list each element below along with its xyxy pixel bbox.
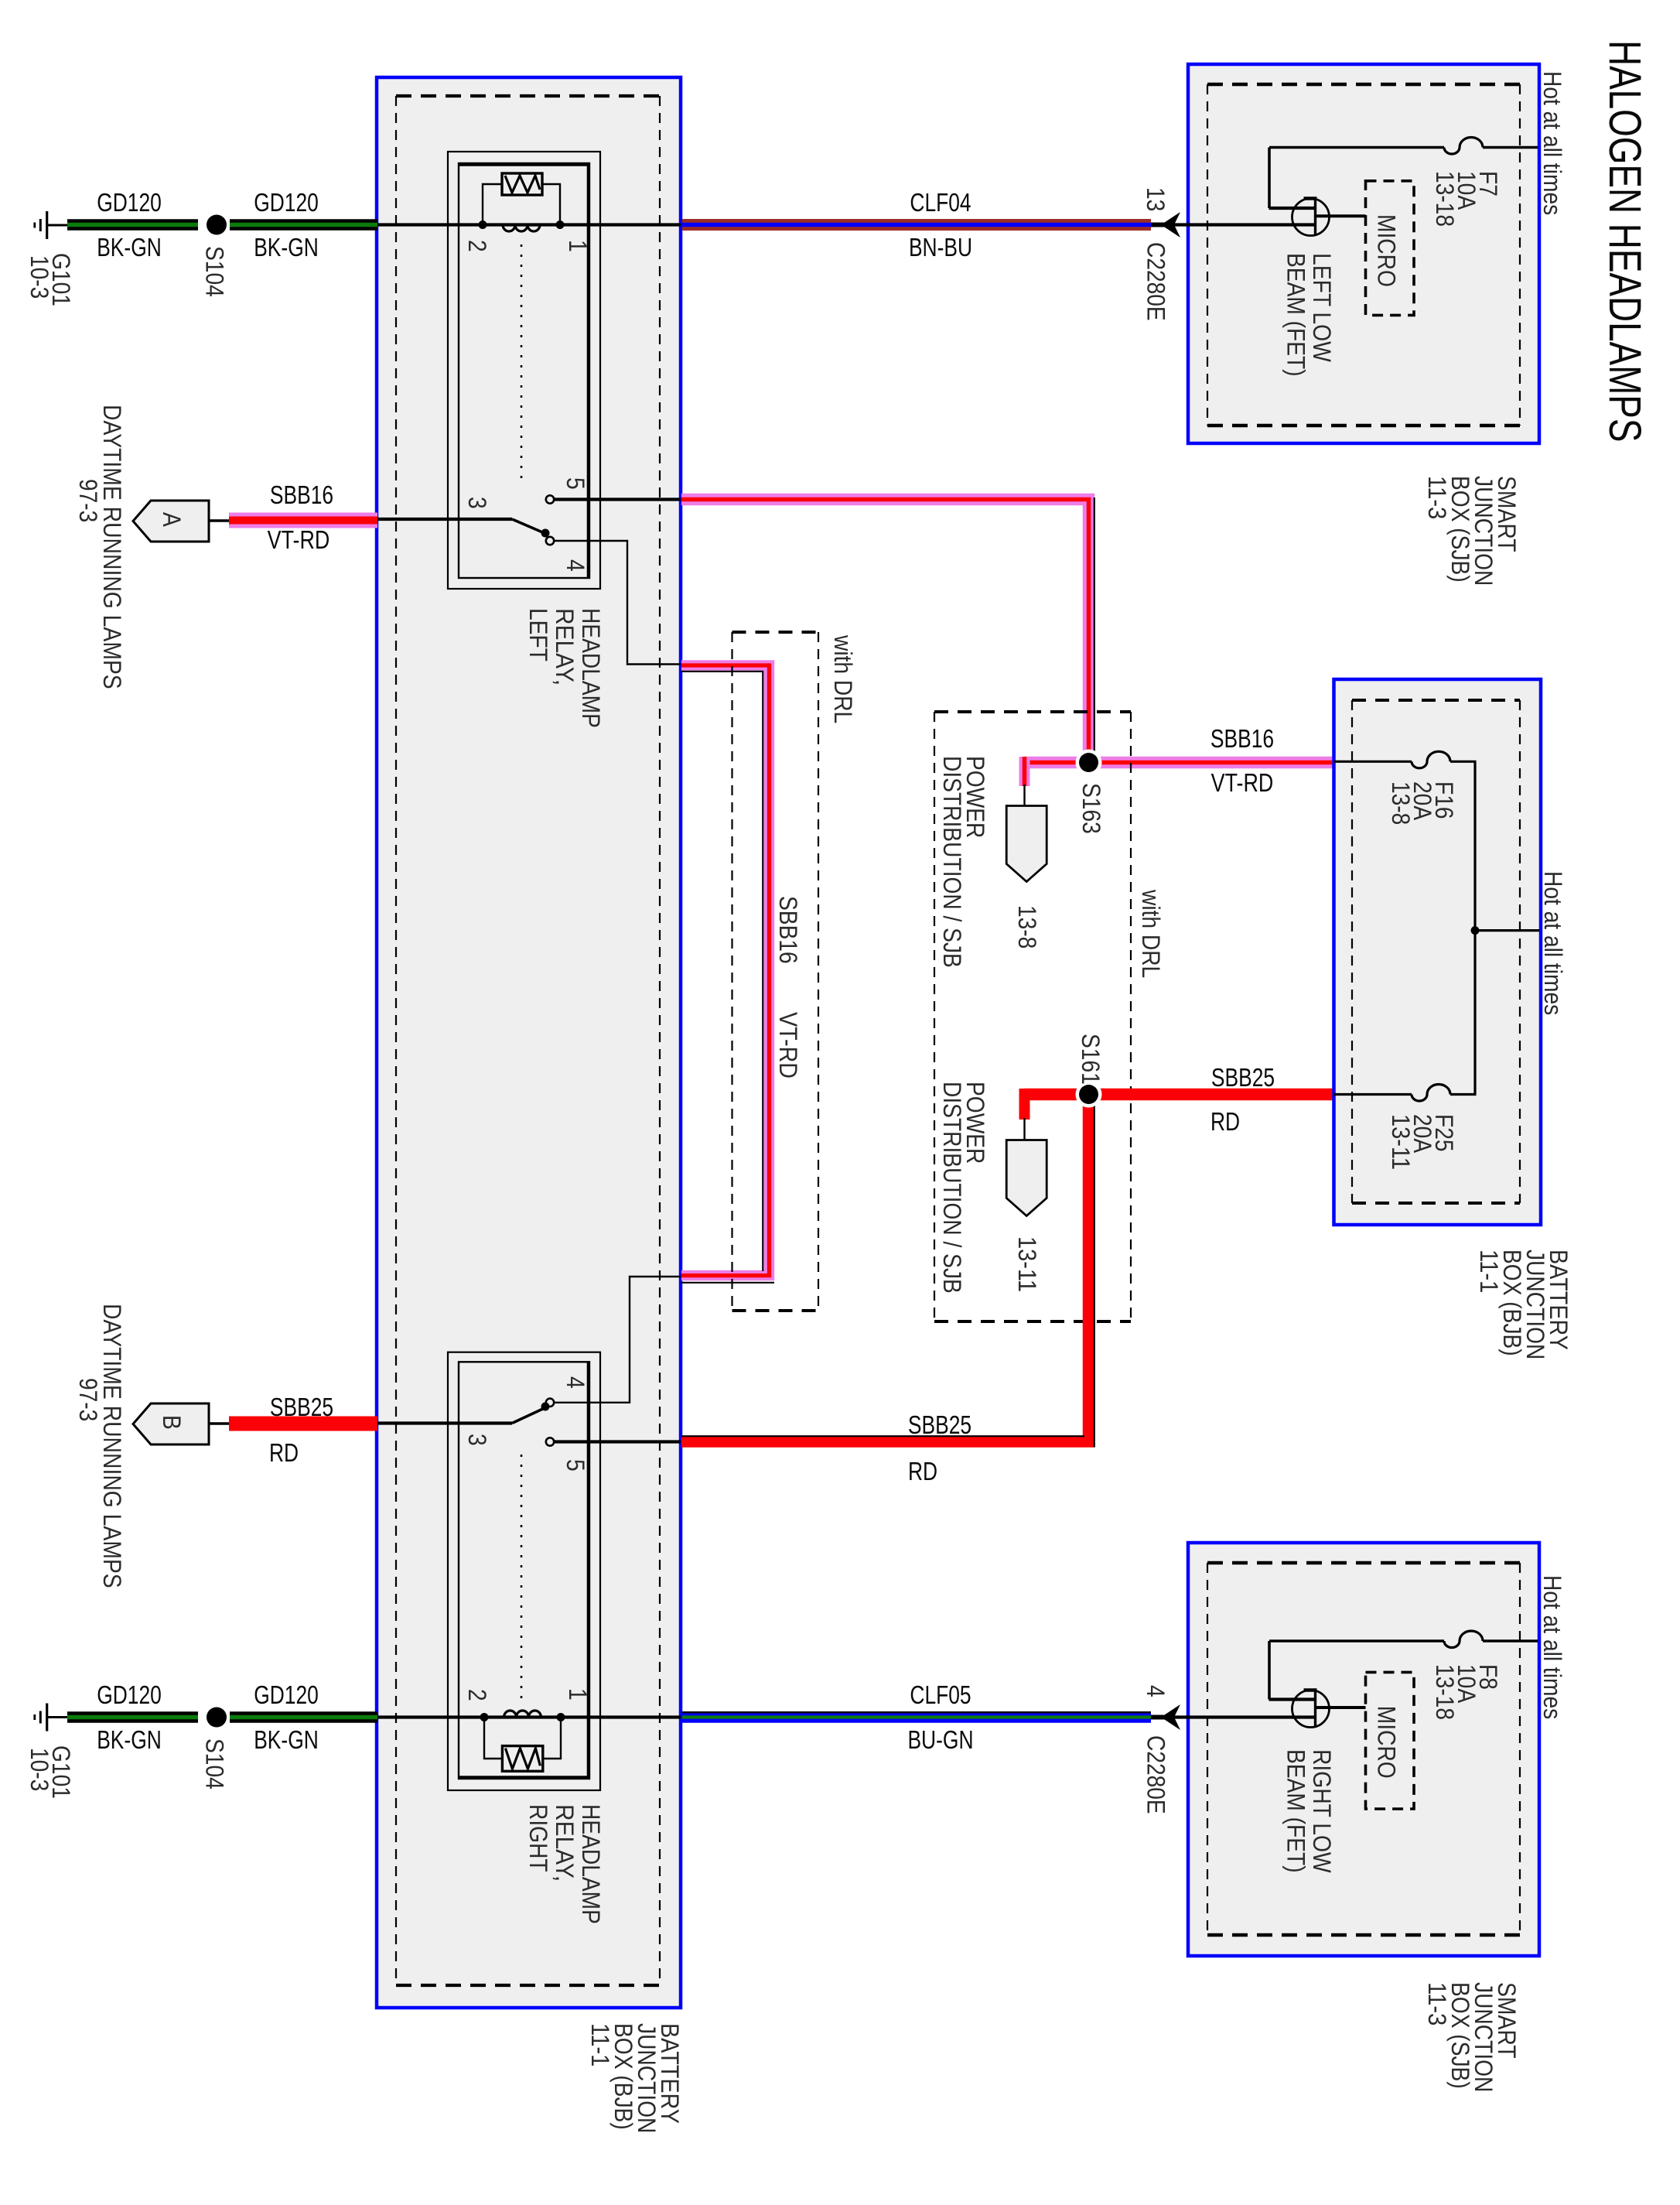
wire CLF04 BN-BU (BJB to left low beam) xyxy=(682,219,1151,231)
svg-text:BK-GN: BK-GN xyxy=(97,233,162,262)
svg-text:97-3: 97-3 xyxy=(74,1378,102,1421)
FET driver RIGHT LOW BEAM xyxy=(1292,1690,1330,1728)
pin 4 terminal (relay right) xyxy=(546,1399,554,1407)
svg-text:10-3: 10-3 xyxy=(26,1748,53,1791)
svg-text:VT-RD: VT-RD xyxy=(774,1012,802,1079)
svg-text:4: 4 xyxy=(1142,1685,1170,1697)
hot at all times feed line xyxy=(1475,929,1539,932)
svg-text:97-3: 97-3 xyxy=(74,479,102,522)
smart junction box SJB (top) xyxy=(1188,64,1539,443)
svg-text:S104: S104 xyxy=(201,246,229,297)
svg-text:BK-GN: BK-GN xyxy=(254,233,319,262)
svg-text:5: 5 xyxy=(562,1459,589,1472)
relay coil terminals (dots) xyxy=(479,220,487,229)
svg-text:BN-BU: BN-BU xyxy=(909,233,972,262)
svg-text:RELAY,: RELAY, xyxy=(551,608,579,685)
wire through relay coil (pin 2 to pin 1) xyxy=(377,223,681,226)
svg-text:SBB25: SBB25 xyxy=(1211,1063,1275,1092)
relay right coil terminals xyxy=(480,1713,489,1721)
wire SBB25 RD (S161 to BJB fuse F25) xyxy=(1025,1089,1334,1101)
relay box HEADLAMP RELAY LEFT (outer) xyxy=(448,152,600,589)
svg-text:A: A xyxy=(158,512,186,527)
hot feed and fuse F8 xyxy=(1483,1639,1538,1643)
connector arrow C2280E pin 13 xyxy=(1151,223,1169,227)
relay right suppression resistor xyxy=(484,1718,503,1759)
svg-text:with DRL: with DRL xyxy=(1137,889,1165,978)
arrow to 13-11 power distribution xyxy=(1006,1140,1047,1216)
wire SBB25 stub to arrow 13-11 xyxy=(1019,1089,1030,1120)
splice S161 xyxy=(1076,1082,1102,1108)
svg-text:BEAM (FET): BEAM (FET) xyxy=(1282,1749,1310,1873)
MICRO dashed box (bottom) xyxy=(1366,1672,1415,1809)
splice S104 (top) xyxy=(207,215,227,235)
svg-text:3: 3 xyxy=(463,1434,491,1446)
lead from connector A xyxy=(209,519,230,521)
relay HEADLAMP RELAY RIGHT (inner) xyxy=(459,1362,589,1779)
wire SBB25 RD (connector B to relay pin 3) xyxy=(229,1417,377,1431)
connector B arrow xyxy=(133,1403,209,1444)
svg-text:BEAM (FET): BEAM (FET) xyxy=(1282,253,1310,377)
SJB bottom inner dashed outline xyxy=(1207,1561,1520,1564)
fuse F25 feed wire xyxy=(1334,1093,1412,1096)
ground G101 (top) xyxy=(46,211,48,239)
wire GD120 BK-GN (top, S104 to BJB) xyxy=(230,219,377,231)
drop to right low beam FET xyxy=(1268,1641,1271,1700)
pin 4 wire to DRL loop xyxy=(554,541,681,665)
svg-text:RD: RD xyxy=(1210,1107,1240,1136)
svg-text:Hot at all times: Hot at all times xyxy=(1538,1575,1566,1719)
lead from connector B xyxy=(209,1422,230,1424)
relay HEADLAMP RELAY LEFT (inner) xyxy=(459,163,589,578)
svg-text:5: 5 xyxy=(562,477,589,490)
dashed box with DRL xyxy=(732,631,819,634)
hot feed and fuse F7 xyxy=(1483,146,1538,149)
svg-text:GD120: GD120 xyxy=(97,1680,162,1709)
svg-text:HEADLAMP: HEADLAMP xyxy=(577,1804,605,1924)
svg-text:BU-GN: BU-GN xyxy=(907,1725,973,1754)
svg-text:MICRO: MICRO xyxy=(1373,1706,1401,1779)
relay coil windings xyxy=(503,225,540,232)
relay right switch blade xyxy=(512,1407,546,1424)
FET driver LEFT LOW BEAM xyxy=(1292,199,1330,236)
svg-text:1: 1 xyxy=(564,1688,592,1701)
fuse F25 xyxy=(1412,1085,1450,1102)
svg-text:13-8: 13-8 xyxy=(1387,781,1415,825)
svg-text:4: 4 xyxy=(562,559,589,572)
svg-text:C2280E: C2280E xyxy=(1142,242,1170,321)
svg-text:11-3: 11-3 xyxy=(1423,1982,1451,2026)
wire SBB16 VT-RD (connector A to relay pin 3) xyxy=(229,513,377,528)
svg-text:S104: S104 xyxy=(201,1738,229,1790)
fuse F16 feed wire xyxy=(1334,761,1412,763)
svg-text:DISTRIBUTION / SJB: DISTRIBUTION / SJB xyxy=(938,1082,966,1294)
svg-text:BK-GN: BK-GN xyxy=(254,1725,319,1754)
svg-text:RD: RD xyxy=(269,1438,299,1467)
wire SBB16 stub to arrow 13-8 xyxy=(1019,757,1030,786)
svg-text:SBB16: SBB16 xyxy=(774,896,802,964)
svg-text:BK-GN: BK-GN xyxy=(97,1725,162,1754)
svg-text:13: 13 xyxy=(1142,187,1170,211)
svg-text:2: 2 xyxy=(463,1689,491,1701)
svg-text:VT-RD: VT-RD xyxy=(268,525,330,554)
wire GD120 BK-GN (bottom, ground to splice S104) xyxy=(67,1711,198,1723)
svg-text:RIGHT: RIGHT xyxy=(524,1804,552,1872)
ground G101 (bottom) xyxy=(46,1704,48,1732)
relay internal dotted link xyxy=(521,244,523,486)
svg-text:CLF05: CLF05 xyxy=(910,1680,971,1709)
wire SBB16 VT-RD (relay pin 5 to splice S163) xyxy=(681,500,1089,763)
bus junction xyxy=(1471,926,1480,935)
relay right internal dotted link xyxy=(521,1455,523,1699)
arrow to 13-8 power distribution xyxy=(1006,806,1047,882)
svg-text:RELAY,: RELAY, xyxy=(551,1804,579,1882)
splice S104 (bottom) xyxy=(207,1708,227,1728)
wire GD120 BK-GN (bottom, S104 to BJB) xyxy=(230,1711,377,1723)
svg-text:HALOGEN HEADLAMPS: HALOGEN HEADLAMPS xyxy=(1600,40,1650,442)
svg-text:13-11: 13-11 xyxy=(1387,1114,1415,1170)
svg-text:C2280E: C2280E xyxy=(1142,1735,1170,1814)
relay suppression resistor xyxy=(483,184,503,225)
drop to left low beam FET xyxy=(1268,148,1271,209)
svg-text:SBB25: SBB25 xyxy=(908,1410,971,1439)
svg-text:DISTRIBUTION / SJB: DISTRIBUTION / SJB xyxy=(938,756,966,968)
relay switch blade xyxy=(512,519,546,534)
svg-text:2: 2 xyxy=(463,240,491,252)
svg-text:13-18: 13-18 xyxy=(1431,171,1459,227)
wire through relay right coil (pin 2 to pin 1) xyxy=(377,1715,681,1718)
svg-text:B: B xyxy=(158,1415,186,1430)
svg-text:with DRL: with DRL xyxy=(829,634,857,723)
svg-text:SBB16: SBB16 xyxy=(1210,724,1274,753)
svg-text:SBB16: SBB16 xyxy=(270,480,333,509)
wire SBB25 RD (S161 down to relay right pin 5) xyxy=(681,1095,1089,1442)
pin 4 terminal xyxy=(546,537,554,545)
dashed box POWER DISTRIBUTION / SJB xyxy=(934,710,1131,713)
svg-text:13-8: 13-8 xyxy=(1013,905,1041,949)
smart junction box SJB (bottom) xyxy=(1188,1543,1539,1956)
svg-text:VT-RD: VT-RD xyxy=(1211,768,1274,797)
svg-text:4: 4 xyxy=(562,1376,589,1389)
svg-text:1: 1 xyxy=(564,240,592,252)
pin 4 wire to DRL loop (relay right) xyxy=(554,1277,681,1403)
parallel conductor along DRL loop xyxy=(681,672,763,1271)
svg-text:RD: RD xyxy=(908,1457,937,1485)
svg-text:13-11: 13-11 xyxy=(1013,1236,1041,1292)
svg-text:Hot at all times: Hot at all times xyxy=(1538,71,1566,215)
svg-text:LEFT LOW: LEFT LOW xyxy=(1308,253,1336,363)
svg-text:RIGHT LOW: RIGHT LOW xyxy=(1308,1749,1336,1873)
relay box HEADLAMP RELAY RIGHT (outer) xyxy=(448,1352,600,1790)
svg-text:DAYTIME RUNNING LAMPS: DAYTIME RUNNING LAMPS xyxy=(98,405,126,689)
svg-text:S161: S161 xyxy=(1077,1034,1105,1085)
svg-text:SBB25: SBB25 xyxy=(270,1393,333,1421)
fuse F16 xyxy=(1412,751,1450,768)
battery junction box BJB (left, tall) xyxy=(377,77,681,2008)
splice S163 xyxy=(1076,750,1102,776)
relay right coil windings xyxy=(504,1711,541,1718)
svg-text:Hot at all times: Hot at all times xyxy=(1539,871,1567,1015)
wire GD120 BK-GN (top, ground to splice S104) xyxy=(67,219,198,231)
connector arrow C2280E pin 4 xyxy=(1151,1715,1169,1720)
svg-text:11-3: 11-3 xyxy=(1423,476,1451,519)
pin 3 wire from connector A xyxy=(377,518,512,521)
BJB right inner dashed outline xyxy=(1352,699,1520,702)
svg-text:CLF04: CLF04 xyxy=(910,188,971,217)
connector A arrow xyxy=(133,501,209,542)
svg-text:3: 3 xyxy=(463,497,491,509)
svg-text:MICRO: MICRO xyxy=(1373,214,1401,287)
pin 5 terminal and wire to SBB16 xyxy=(546,495,554,503)
svg-text:11-1: 11-1 xyxy=(1475,1249,1503,1293)
wire SBB16 VT-RD with-DRL loop (relay left pin4 to relay right pin4) xyxy=(681,665,770,1276)
svg-text:DAYTIME RUNNING LAMPS: DAYTIME RUNNING LAMPS xyxy=(98,1304,126,1588)
svg-text:HEADLAMP: HEADLAMP xyxy=(577,608,605,728)
hot feed bus xyxy=(1473,761,1476,1094)
battery junction box BJB (right) xyxy=(1334,679,1542,1225)
svg-text:11-1: 11-1 xyxy=(586,2023,614,2067)
BJB inner dashed outline xyxy=(396,94,660,97)
wire CLF05 BU-GN (BJB to right low beam) xyxy=(682,1711,1151,1723)
SJB top inner dashed outline xyxy=(1207,83,1520,86)
svg-text:GD120: GD120 xyxy=(97,188,162,217)
svg-text:S163: S163 xyxy=(1077,783,1105,834)
svg-text:10-3: 10-3 xyxy=(26,255,53,299)
svg-text:13-18: 13-18 xyxy=(1431,1664,1459,1720)
MICRO dashed box (top) xyxy=(1366,181,1415,316)
pin 3 wire from connector B xyxy=(377,1421,512,1424)
pin 5 terminal and wire to SBB25 xyxy=(546,1438,554,1445)
wire SBB16 VT-RD (S163 to BJB fuse F16) xyxy=(1025,757,1334,769)
svg-text:LEFT: LEFT xyxy=(524,608,552,661)
svg-text:GD120: GD120 xyxy=(254,188,319,217)
svg-text:GD120: GD120 xyxy=(254,1680,319,1709)
